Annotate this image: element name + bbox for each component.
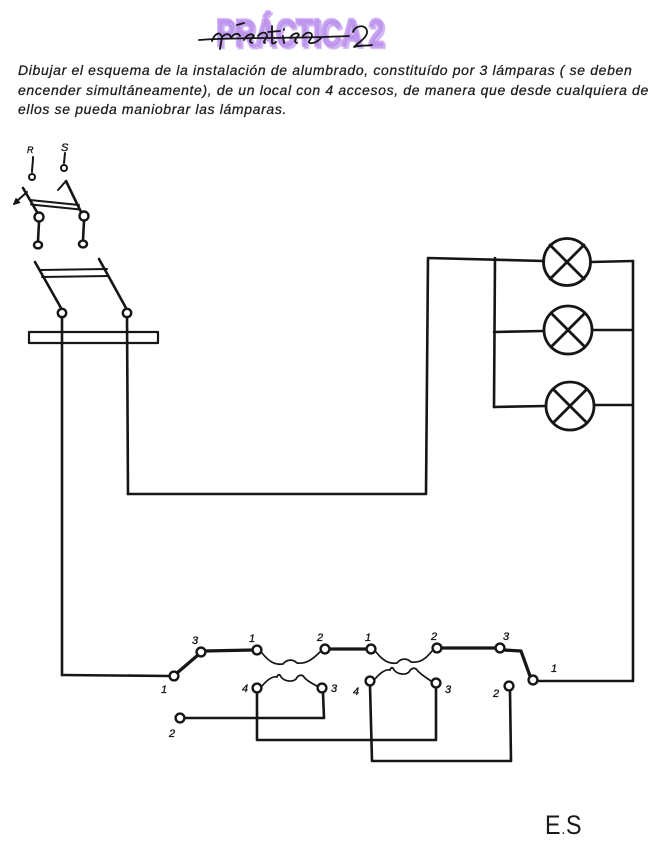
svg-text:1: 1 bbox=[551, 663, 557, 675]
svg-text:2: 2 bbox=[492, 688, 499, 700]
svg-text:2: 2 bbox=[168, 728, 175, 740]
svg-text:1: 1 bbox=[249, 633, 255, 645]
svg-text:3: 3 bbox=[503, 631, 510, 643]
svg-text:3: 3 bbox=[445, 684, 452, 696]
svg-text:1: 1 bbox=[161, 684, 167, 696]
svg-text:2: 2 bbox=[430, 631, 437, 643]
svg-text:3: 3 bbox=[331, 683, 338, 695]
svg-text:4: 4 bbox=[353, 686, 359, 698]
svg-text:R: R bbox=[27, 145, 34, 155]
svg-text:3: 3 bbox=[192, 635, 199, 647]
svg-text:S: S bbox=[61, 142, 69, 154]
svg-text:4: 4 bbox=[242, 683, 248, 695]
svg-text:2: 2 bbox=[316, 632, 323, 644]
svg-text:1: 1 bbox=[365, 632, 371, 644]
